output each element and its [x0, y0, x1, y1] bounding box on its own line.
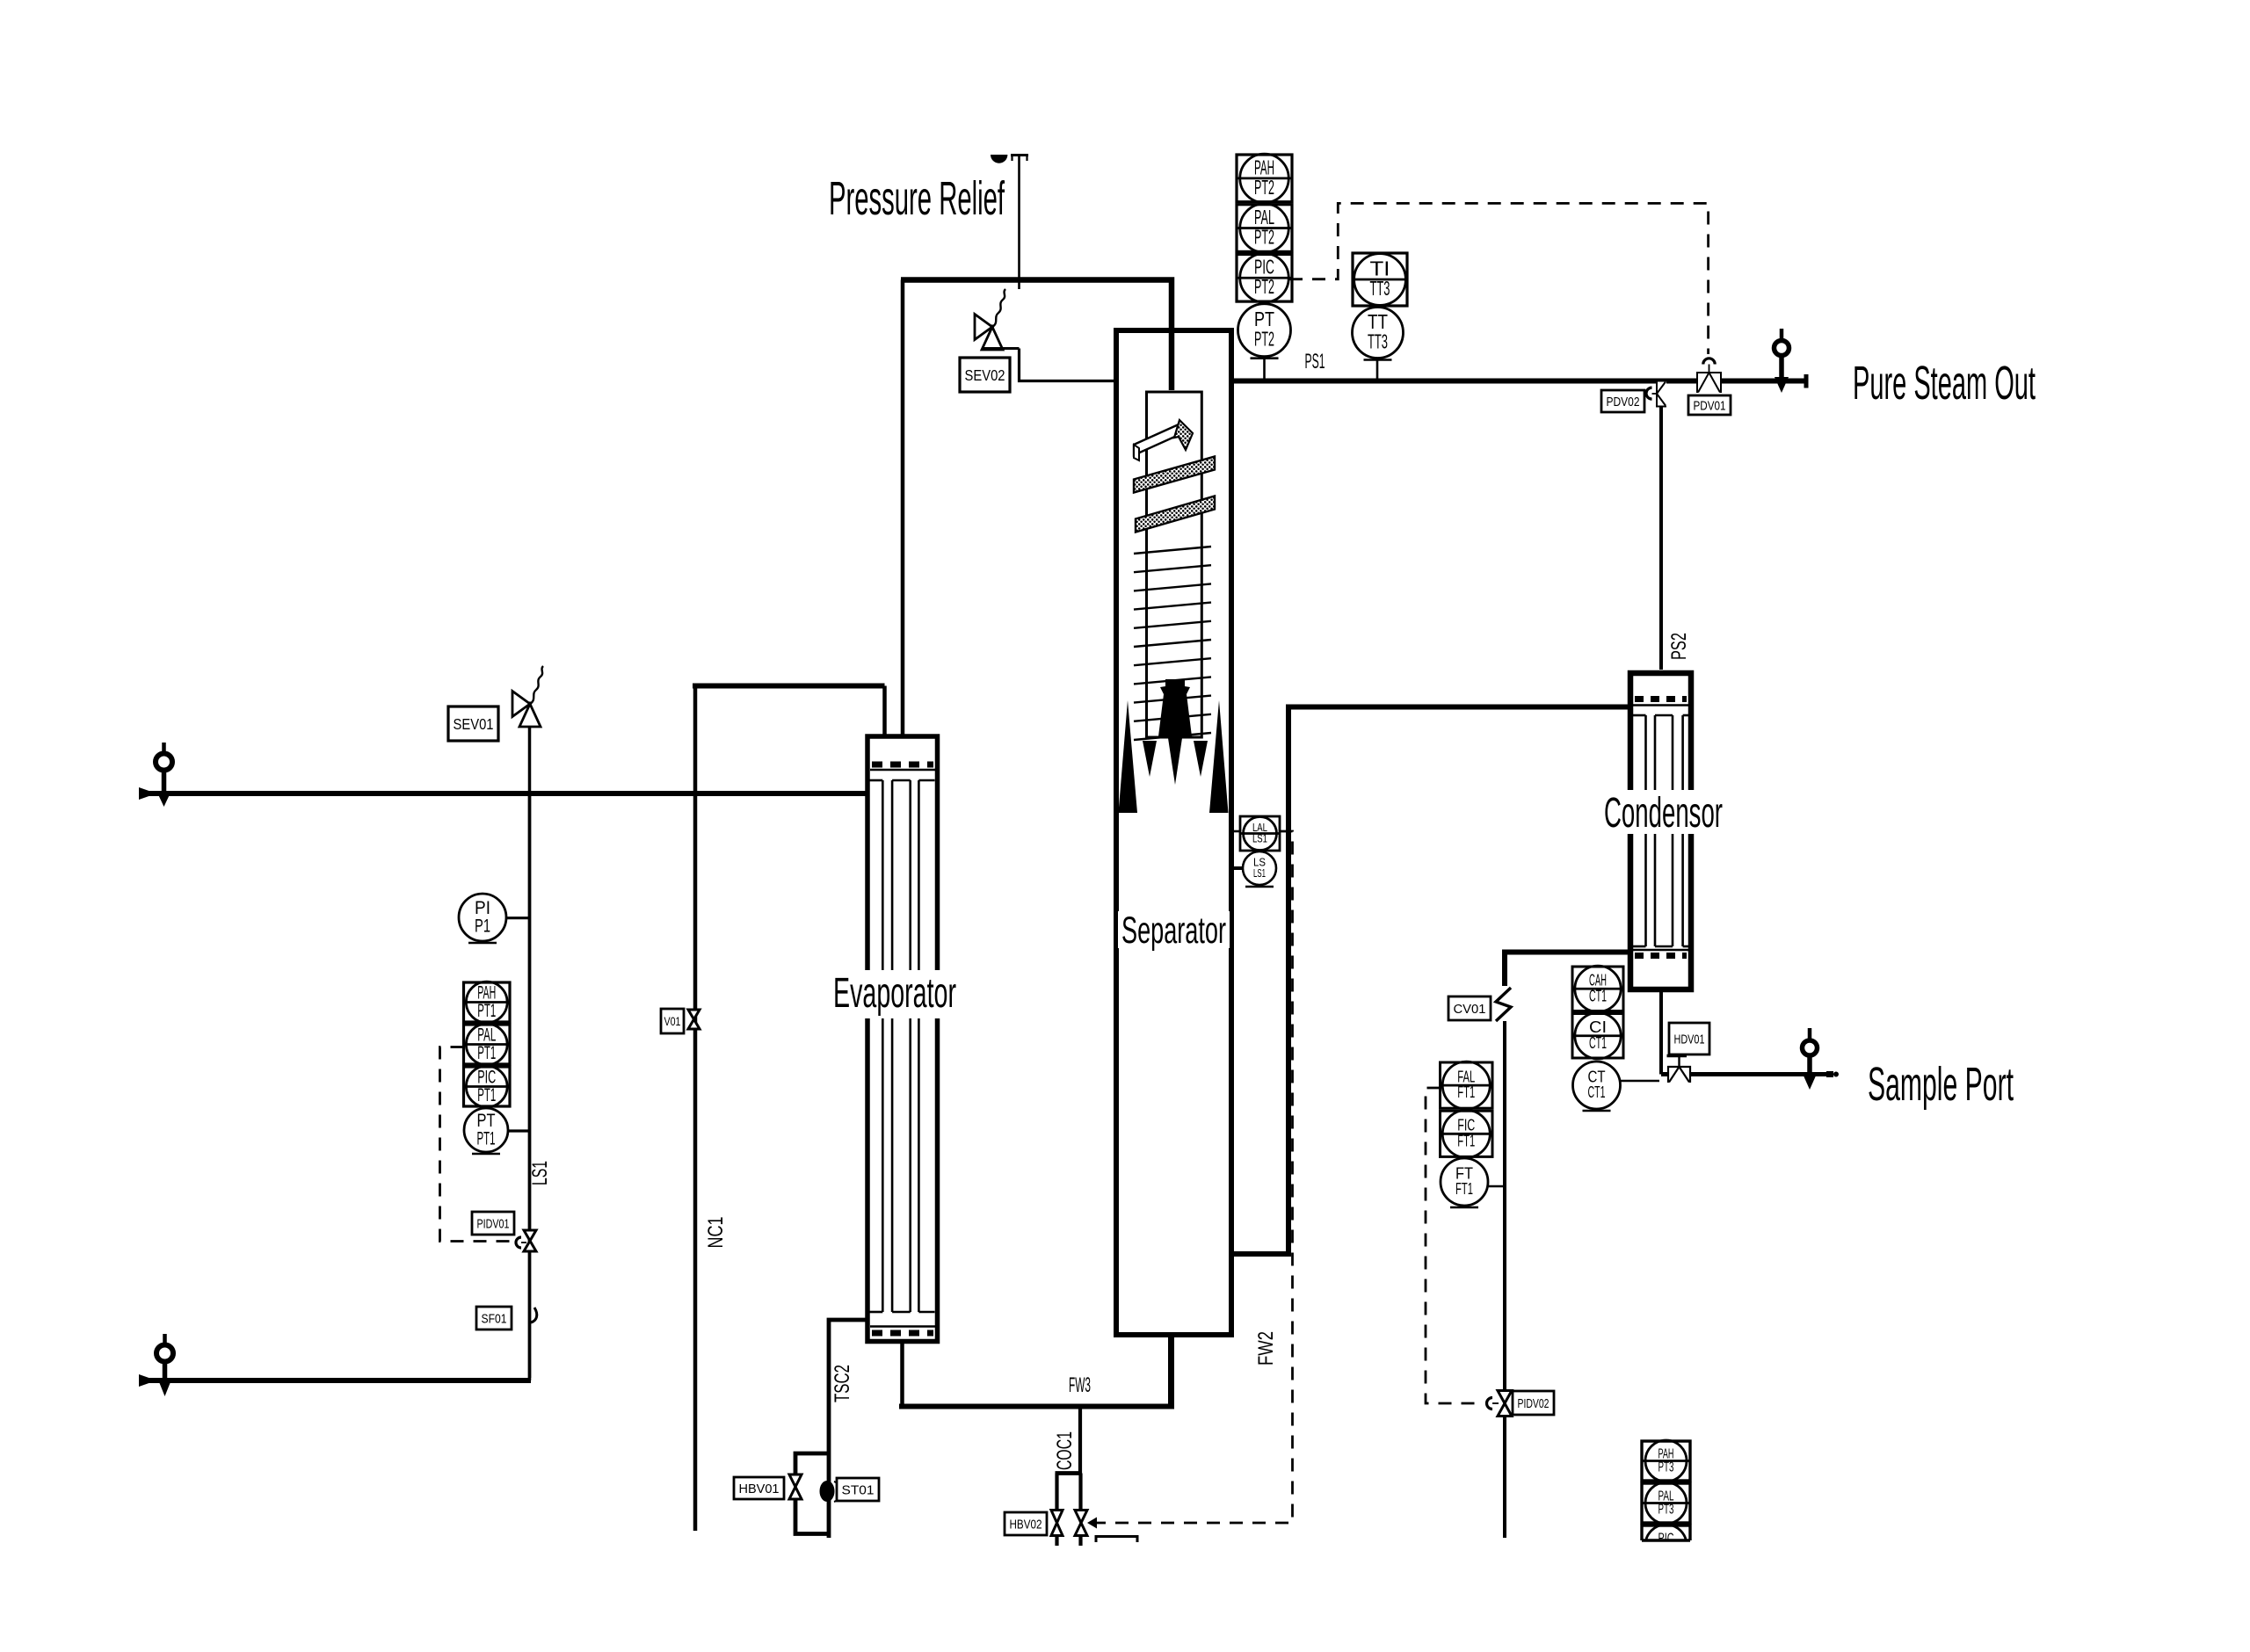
- svg-text:PT2: PT2: [1254, 225, 1274, 248]
- svg-text:TSC2: TSC2: [831, 1365, 854, 1402]
- svg-text:PT3: PT3: [1658, 1460, 1674, 1475]
- svg-text:PAL: PAL: [477, 1025, 496, 1045]
- svg-text:SEV01: SEV01: [454, 715, 494, 733]
- svg-text:HBV02: HBV02: [1010, 1517, 1042, 1532]
- svg-text:PT1: PT1: [477, 1043, 496, 1063]
- svg-text:PDV01: PDV01: [1694, 398, 1726, 413]
- svg-text:HBV01: HBV01: [739, 1482, 780, 1496]
- svg-text:NC1: NC1: [704, 1217, 728, 1249]
- svg-text:PIDV02: PIDV02: [1518, 1396, 1550, 1411]
- svg-text:FW3: FW3: [1069, 1373, 1091, 1397]
- svg-text:FW2: FW2: [1254, 1331, 1278, 1366]
- svg-text:PIDV01: PIDV01: [477, 1216, 510, 1231]
- svg-text:FT1: FT1: [1457, 1083, 1475, 1101]
- svg-text:CV01: CV01: [1454, 1002, 1486, 1017]
- svg-text:FT1: FT1: [1455, 1180, 1473, 1198]
- svg-text:LS1: LS1: [1252, 832, 1267, 844]
- svg-text:PT1: PT1: [477, 1001, 496, 1021]
- svg-text:TT3: TT3: [1368, 330, 1388, 352]
- svg-text:P1: P1: [475, 916, 490, 936]
- svg-text:LS1: LS1: [528, 1161, 552, 1185]
- svg-text:SF01: SF01: [482, 1311, 507, 1326]
- svg-text:TT3: TT3: [1370, 277, 1390, 300]
- svg-text:LS1: LS1: [1253, 867, 1266, 880]
- svg-text:Evaporator: Evaporator: [833, 970, 956, 1017]
- svg-text:Separator: Separator: [1121, 909, 1226, 952]
- svg-text:CT1: CT1: [1589, 987, 1607, 1004]
- svg-text:SEV02: SEV02: [965, 366, 1005, 384]
- svg-text:CT1: CT1: [1588, 1083, 1606, 1101]
- svg-text:V01: V01: [664, 1014, 681, 1028]
- svg-text:HDV01: HDV01: [1674, 1032, 1705, 1047]
- svg-text:PDV02: PDV02: [1607, 395, 1640, 409]
- svg-text:PT3: PT3: [1658, 1503, 1674, 1518]
- svg-text:PIC: PIC: [477, 1067, 496, 1087]
- svg-text:PI: PI: [475, 898, 490, 918]
- svg-text:CT1: CT1: [1589, 1034, 1607, 1052]
- svg-text:Sample Port: Sample Port: [1868, 1058, 2014, 1111]
- svg-text:PT2: PT2: [1254, 176, 1274, 199]
- svg-text:PT2: PT2: [1254, 275, 1274, 298]
- svg-text:Pure Steam Out: Pure Steam Out: [1853, 357, 2036, 409]
- svg-text:PT2: PT2: [1254, 328, 1274, 351]
- svg-text:PT1: PT1: [477, 1085, 496, 1105]
- svg-text:ST01: ST01: [842, 1482, 875, 1497]
- svg-text:PS1: PS1: [1305, 350, 1325, 373]
- svg-text:PS2: PS2: [1667, 633, 1691, 660]
- svg-text:Pressure Relief: Pressure Relief: [829, 172, 1005, 225]
- svg-text:FT1: FT1: [1457, 1132, 1475, 1149]
- svg-text:PT1: PT1: [477, 1128, 496, 1148]
- svg-text:PT: PT: [477, 1111, 496, 1131]
- svg-text:COC1: COC1: [1053, 1431, 1077, 1470]
- svg-text:Condensor: Condensor: [1604, 790, 1723, 837]
- svg-text:PAH: PAH: [477, 982, 496, 1003]
